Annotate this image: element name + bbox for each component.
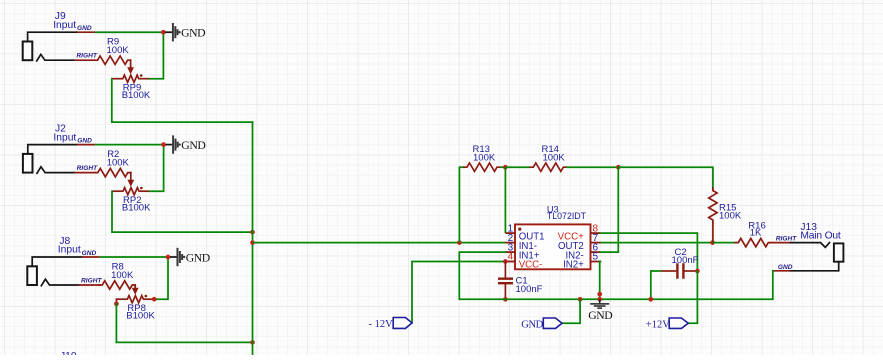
wire RP2 wiper-out to mix bus	[112, 191, 253, 232]
wire R14 to junction	[566, 166, 618, 168]
svg-text:GND: GND	[181, 27, 205, 40]
svg-text:5: 5	[593, 252, 599, 263]
svg-text:RIGHT: RIGHT	[77, 165, 98, 172]
svg-text:TL072IDT: TL072IDT	[547, 211, 587, 221]
wire OUT1 feedback drop	[504, 167, 506, 233]
svg-text:Input: Input	[53, 132, 76, 143]
resistor R14	[530, 163, 566, 171]
junction VCC-/C1	[503, 259, 508, 264]
ground GND (J2)	[173, 135, 178, 153]
capacitor C1	[504, 262, 506, 278]
svg-text:RIGHT: RIGHT	[76, 53, 97, 60]
svg-text:100K: 100K	[107, 45, 130, 56]
pin GND of J2	[77, 144, 95, 146]
pin 7 OUT2 of U3	[591, 242, 601, 244]
wire IN2+ to ground	[599, 262, 602, 300]
wire J8 GND to junction	[100, 256, 168, 258]
junction GND flag on bus	[578, 297, 583, 302]
wire junction to R16	[713, 242, 736, 244]
ground GND (J9)	[173, 23, 178, 41]
wire R13 left drop	[458, 167, 460, 242]
pin 5 IN2+ of U3	[591, 261, 601, 263]
pin 1 OUT1 of U3	[506, 232, 516, 234]
wire junction to R14	[505, 166, 530, 168]
junction earth on bus	[597, 297, 602, 302]
junction R14/IN2-	[616, 165, 621, 170]
junction J2 ground	[161, 142, 166, 147]
svg-text:RIGHT: RIGHT	[81, 277, 102, 284]
svg-text:GND: GND	[77, 25, 92, 32]
svg-text:+12V: +12V	[646, 320, 670, 331]
connector J2 jack symbol	[23, 154, 33, 173]
wire RP2 right terminal to ground junction	[150, 145, 164, 192]
svg-text:GND: GND	[82, 250, 97, 257]
pin 3 IN1+ of U3	[506, 251, 516, 253]
wire RP9 wiper-out to mix bus	[112, 79, 253, 122]
wire RP8 out drop	[115, 299, 117, 304]
svg-text:100K: 100K	[107, 157, 130, 168]
connector J9 jack symbol	[23, 42, 33, 61]
wire OUT2 to output	[601, 242, 713, 244]
wire ground bus	[459, 298, 773, 300]
svg-text:J10: J10	[60, 351, 77, 355]
wire VCC+ to C2/+12V	[601, 233, 698, 271]
pin GND of J9	[77, 31, 95, 33]
svg-text:B100K: B100K	[126, 311, 155, 322]
junction RP2 out on mix bus	[250, 230, 255, 235]
ground earth symbol	[590, 299, 609, 308]
potentiometer RP8 wiper arrow	[134, 285, 136, 289]
resistor R16	[735, 238, 771, 246]
junction R15/OUT2	[710, 240, 715, 245]
pin GND of J13	[773, 270, 790, 272]
svg-text:100nF: 100nF	[672, 255, 699, 266]
power flag +12V	[669, 318, 688, 328]
wire RP9 right terminal to ground junction	[150, 32, 164, 78]
junction C2/VCC+/+12V	[695, 269, 700, 274]
svg-text:B100K: B100K	[122, 203, 151, 214]
pin 2 IN1- of U3	[506, 242, 516, 244]
potentiometer RP8	[126, 296, 144, 303]
svg-text:GND: GND	[778, 264, 793, 271]
junction IN2+ drop	[597, 292, 602, 297]
wire J13 GND to ground bus	[772, 271, 775, 300]
svg-text:Input: Input	[53, 20, 76, 31]
pin 4 VCC- of U3	[506, 261, 516, 263]
junction J9 ground	[161, 30, 166, 35]
wire GND flag riser	[562, 299, 580, 323]
junction C2 on ground bus	[648, 297, 653, 302]
wire J9 GND to junction	[95, 31, 163, 33]
wire C2 left to ground bus	[650, 271, 652, 299]
wire IN1+ to ground bus	[459, 252, 505, 299]
resistor R15	[709, 188, 717, 222]
junction RP8 right terminal	[152, 297, 157, 302]
potentiometer RP2	[122, 188, 140, 195]
wire to ground symbol (GND (J9))	[165, 31, 173, 33]
svg-text:GND: GND	[77, 138, 92, 145]
svg-text:Input: Input	[58, 245, 81, 256]
svg-text:B100K: B100K	[122, 90, 151, 101]
svg-text:1K: 1K	[750, 228, 762, 239]
wire +12V riser	[689, 271, 697, 323]
junction RP8 out on mix bus	[250, 340, 255, 345]
junction R13/R14/OUT1	[503, 165, 508, 170]
wire IN2- riser	[601, 167, 619, 252]
connector J13 jack symbol	[791, 243, 830, 248]
wire top line to R15	[618, 167, 713, 188]
svg-text:Main Out: Main Out	[800, 230, 841, 241]
wire mix bus to IN1- (pin 2)	[253, 242, 506, 244]
wire top feedback segment	[459, 166, 464, 168]
svg-text:GND: GND	[588, 309, 612, 322]
potentiometer RP9 wiper arrow	[130, 60, 132, 68]
power flag GND	[543, 318, 562, 328]
pin RIGHT of J2	[74, 172, 96, 174]
wire RP8 out to mix bus	[116, 304, 252, 343]
svg-text:GND: GND	[521, 319, 543, 330]
potentiometer RP9	[122, 75, 140, 82]
wire to ground symbol (GND (J2))	[166, 144, 174, 146]
svg-text:100K: 100K	[111, 270, 134, 281]
svg-text:- 12V: - 12V	[369, 319, 394, 330]
svg-text:IN2+: IN2+	[563, 260, 584, 271]
resistor R9	[95, 56, 131, 64]
svg-text:GND: GND	[186, 251, 210, 264]
svg-text:RIGHT: RIGHT	[776, 236, 797, 243]
capacitor C2	[651, 270, 661, 272]
wire R13 to junction	[500, 166, 505, 168]
junction C1 on ground bus	[503, 297, 508, 302]
resistor R13	[464, 163, 500, 171]
junction J8 ground	[166, 255, 171, 260]
potentiometer RP2 wiper arrow	[130, 173, 132, 181]
svg-text:100nF: 100nF	[516, 284, 543, 295]
wire mix bus vertical	[252, 122, 254, 356]
wire J2 GND to junction	[95, 144, 163, 146]
svg-text:100K: 100K	[719, 211, 742, 222]
svg-text:GND: GND	[181, 139, 205, 152]
power flag -12V	[393, 318, 412, 329]
resistor R2	[95, 168, 131, 176]
wire to ground symbol (GND (J8))	[170, 256, 178, 258]
pin 8 VCC+ of U3	[591, 232, 601, 234]
junction mix bus to IN1- bus	[250, 240, 255, 245]
connector J8 jack symbol	[27, 266, 37, 285]
wire RP8 right terminal to ground junction	[154, 257, 168, 299]
svg-text:100K: 100K	[543, 152, 566, 163]
ground GND (J8)	[178, 248, 183, 266]
wire R16 to J13 RIGHT pin	[771, 242, 790, 244]
op-amp U3 TL072IDT body	[515, 224, 591, 269]
pin GND of J8	[82, 256, 100, 258]
junction R13 on IN1- bus	[457, 240, 462, 245]
wire VCC- to -12V	[412, 262, 505, 323]
junction RP8 left terminal	[114, 301, 119, 306]
svg-text:100K: 100K	[473, 152, 496, 163]
svg-text:4: 4	[508, 252, 514, 263]
pin 6 IN2- of U3	[591, 251, 601, 253]
svg-text:VCC-: VCC-	[519, 260, 543, 271]
pin RIGHT of J9	[74, 59, 96, 61]
pin RIGHT of J8	[79, 284, 101, 286]
resistor R8	[99, 281, 135, 289]
